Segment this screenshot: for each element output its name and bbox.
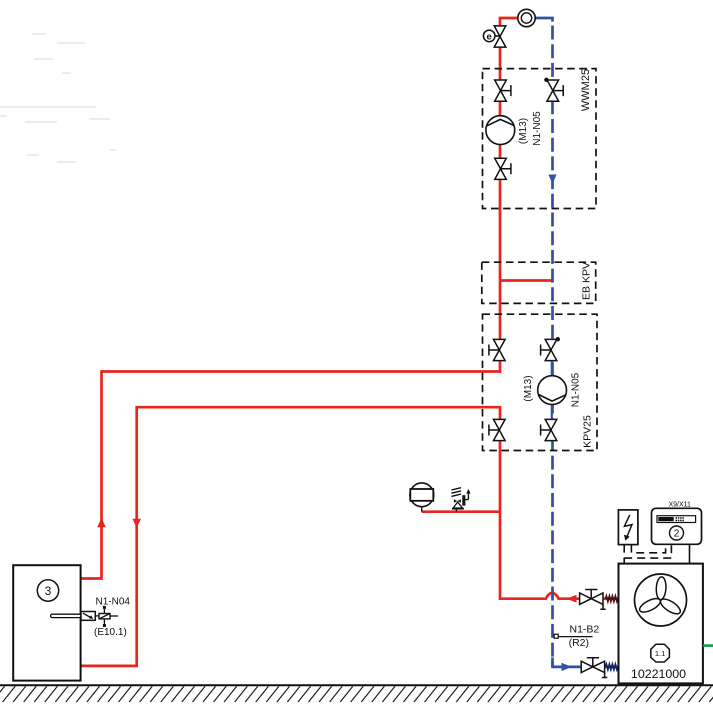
svg-text:(R2): (R2) [569, 637, 589, 649]
svg-text:e: e [487, 31, 492, 42]
svg-text:10221000: 10221000 [631, 667, 686, 681]
svg-text:(E10.1): (E10.1) [94, 627, 127, 638]
svg-text:3: 3 [45, 584, 52, 598]
svg-text:N1-N05: N1-N05 [532, 111, 543, 146]
svg-text:WWM25: WWM25 [580, 69, 592, 111]
svg-text:(M13): (M13) [523, 375, 534, 401]
svg-text:N1-B2: N1-B2 [570, 624, 600, 636]
svg-text:1.1: 1.1 [655, 649, 665, 658]
svg-text:N1-N05: N1-N05 [571, 372, 582, 407]
svg-text:2: 2 [674, 529, 680, 540]
svg-text:(M13): (M13) [518, 118, 529, 144]
svg-text:N1: N1 [660, 517, 666, 522]
svg-text:EB KPV: EB KPV [581, 262, 593, 300]
svg-text:N1-N04: N1-N04 [96, 597, 131, 608]
svg-text:KPV25: KPV25 [582, 415, 594, 448]
